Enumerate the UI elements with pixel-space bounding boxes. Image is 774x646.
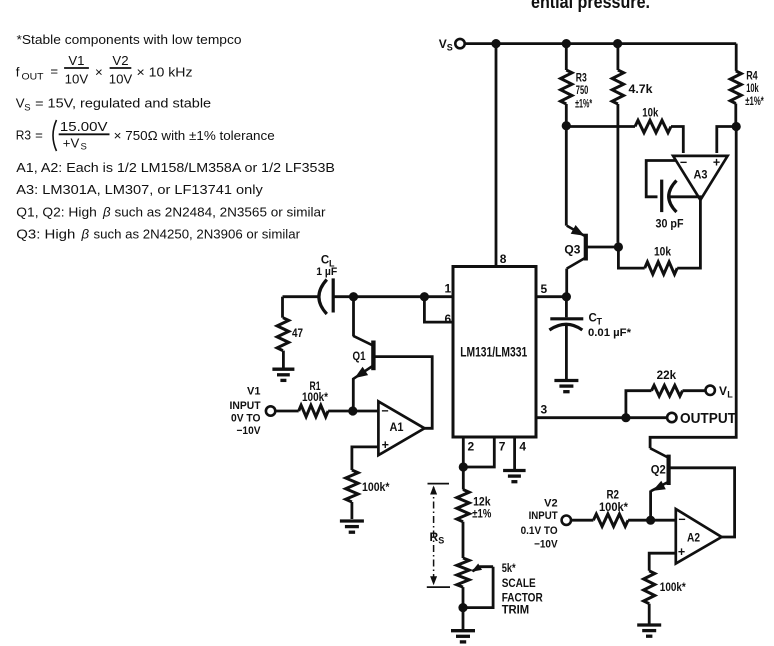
node pin5-CT-Q3 junction [562,292,571,301]
svg-text:1: 1 [445,282,452,296]
note: fOUT formula [16,53,193,87]
node R3 bottom junction [562,121,571,130]
svg-text:*Stable components with low te: *Stable components with low tempco [17,32,242,47]
svg-text:=: = [50,64,58,79]
svg-text:× 10 kHz: × 10 kHz [137,65,193,80]
node rail-R3 junction [562,39,571,48]
wire Q1 base to A1 output [373,357,432,429]
svg-text:±1%: ±1% [472,509,491,521]
svg-text:12k: 12k [473,496,491,508]
svg-text:R4: R4 [746,70,758,82]
svg-text:S: S [81,142,87,153]
svg-text:SCALE: SCALE [502,578,536,590]
wire 5k to ground [462,608,465,630]
svg-text:5k*: 5k* [502,563,516,575]
svg-text:0.01 µF*: 0.01 µF* [588,327,632,339]
label 47 [292,328,303,340]
terminal VL [706,384,734,400]
label V2 input [521,498,559,551]
label 4.7k value [629,84,654,96]
node rail-pin8 junction [491,39,500,48]
svg-text:OUT: OUT [22,72,44,83]
capacitor 30 pF [646,161,701,213]
svg-text:10V: 10V [65,72,89,87]
wire pin 5 [536,295,566,298]
note: A1 A2 [16,160,335,175]
svg-text:C: C [321,255,329,267]
pin 1 label [445,282,452,296]
label 10k A3 input [642,105,658,119]
transistor Q1 [353,297,374,411]
svg-text:100k*: 100k* [362,482,390,494]
wire pin 3 to OUTPUT [536,416,667,419]
resistor R3 [561,44,572,126]
resistor 100k A1 [346,470,358,519]
resistor 12k [457,467,469,558]
svg-text:V: V [719,384,727,398]
wire A1 noninverting input [352,447,379,470]
svg-text:10k: 10k [642,105,658,119]
ground below 5k [451,631,475,642]
label R1 value [302,381,328,404]
svg-text:+: + [678,545,685,559]
terminal OUTPUT [667,410,736,427]
label CT value [588,313,632,340]
transistor Q2 [650,448,735,537]
svg-text:× 750Ω with ±1% tolerance: × 750Ω with ±1% tolerance [114,128,275,143]
svg-text:47: 47 [292,328,303,340]
note: Q1 Q2 [16,205,326,220]
pin 5 label [541,282,548,296]
svg-text:A3: LM301A, LM307, or LF13741: A3: LM301A, LM307, or LF13741 only [16,182,263,197]
svg-text:FACTOR: FACTOR [502,592,544,604]
pin 6 label [445,312,452,326]
label CL value [316,255,337,279]
svg-text:ential pressure.: ential pressure. [531,0,650,12]
ground below 47 [272,369,294,380]
figure caption (cropped) [531,0,650,12]
measurement bracket RS [427,484,450,587]
svg-text:0.1V TO: 0.1V TO [521,525,558,537]
svg-text:100k*: 100k* [660,582,686,594]
note: R3 formula [16,119,275,153]
svg-text:Q3: Q3 [564,245,580,257]
svg-text:5: 5 [541,282,548,296]
svg-text:Q2: Q2 [651,465,666,477]
svg-text:R3: R3 [576,73,587,85]
pin 8 label [500,252,507,266]
wire junction to A1 inverting input [353,410,379,413]
svg-text:10k: 10k [746,83,759,95]
svg-text:8: 8 [500,252,507,266]
wire pin 1 [424,295,453,298]
label 100k A1 [362,482,390,494]
label 5k trim [502,563,544,616]
svg-text:2: 2 [468,439,475,453]
svg-text:TRIM: TRIM [502,604,530,616]
node 5k bottom junction [458,603,467,612]
svg-text:INPUT: INPUT [230,400,261,412]
svg-text:−: − [381,404,388,418]
label 22k [657,370,677,382]
wire VS supply rail [465,42,737,45]
node R1-Q1-A1 junction [348,406,357,415]
svg-text:3: 3 [541,402,548,416]
svg-text:OUTPUT: OUTPUT [680,410,736,427]
svg-text:100k*: 100k* [302,392,328,404]
potentiometer 5k scale factor trim [457,558,493,608]
svg-text:V1: V1 [247,385,260,397]
svg-text:S: S [438,536,444,546]
label R2 value [599,490,629,514]
svg-text:22k: 22k [657,370,677,382]
svg-text:Q3: High: Q3: High [16,227,75,242]
node Q3 base junction [614,242,623,251]
capacitor CT [549,297,583,380]
pin 7 label [499,439,506,453]
svg-text:1 µF: 1 µF [316,266,337,278]
svg-text:4.7k: 4.7k [629,84,654,96]
pin 4 label [519,439,526,453]
node output junction [621,413,630,422]
wire pin 4 [513,437,516,470]
label R3 value [575,73,592,111]
svg-text:7: 7 [499,439,506,453]
svg-text:×: × [95,65,103,80]
svg-text:V: V [439,37,447,51]
pin 2 label [468,439,475,453]
wire A2 noninverting input [649,553,676,571]
op-amp A1 [378,401,424,455]
svg-text:A1: A1 [390,422,405,434]
node R2-Q2-A2 junction [646,516,655,525]
resistor 47 [277,297,289,369]
svg-text:100k*: 100k* [599,502,629,514]
svg-text:6: 6 [445,312,452,326]
capacitor CL [283,278,354,314]
svg-text:10V: 10V [109,72,133,87]
svg-text:−: − [678,512,685,526]
label R4 value [745,70,764,108]
resistor 4.7k [612,44,623,243]
svg-text:−10V: −10V [237,425,262,437]
IC U1 LM131/LM331 [453,267,536,438]
svg-text:10k: 10k [654,245,671,259]
svg-text:f: f [16,65,20,80]
terminal V2 input [562,516,571,525]
svg-text:β: β [81,227,90,242]
resistor 22k [626,385,706,417]
resistor 10k A3 feedback [618,200,700,274]
resistor 10k A3 input [566,120,683,153]
svg-text:= 15V, regulated and stable: = 15V, regulated and stable [35,96,211,111]
terminal VS [439,37,465,53]
svg-text:such as 2N2484, 2N3565 or simi: such as 2N2484, 2N3565 or similar [115,205,327,220]
svg-text:A2: A2 [687,532,700,544]
transistor Q3 [564,126,618,297]
svg-text:T: T [597,317,603,327]
svg-text:such as 2N4250, 2N3906 or simi: such as 2N4250, 2N3906 or similar [94,227,301,242]
svg-text:±1%*: ±1%* [575,99,592,111]
svg-text:LM131/LM331: LM131/LM331 [460,344,527,359]
note: stable components [17,32,242,47]
node rail-4.7k junction [613,39,622,48]
note: VS [16,96,211,114]
svg-text:−10V: −10V [534,539,558,551]
wire A3 noninverting input to R4 node [717,127,736,154]
node CL junction [349,292,358,301]
svg-text:R: R [430,530,439,544]
svg-text:R2: R2 [607,490,620,502]
ground below pin 4 [503,471,525,482]
note: Q3 note [16,227,300,242]
wire pin 8 to rail [495,44,498,267]
svg-text:L: L [727,390,733,400]
wire pin1 node to CL [354,295,425,298]
wire pin 6 [424,297,453,322]
wire pin 7 [463,437,494,467]
svg-text:β: β [102,205,111,220]
label 100k A2 [660,582,686,594]
note: A3 [16,182,263,197]
ground below CT [554,381,578,392]
terminal V1 input [266,406,275,415]
svg-text:0V TO: 0V TO [231,412,261,424]
wire junction to A2 inverting input [651,519,676,522]
resistor 100k A2 [644,571,655,624]
op-amp A2 [676,509,722,564]
svg-text:750: 750 [576,85,589,97]
svg-text:V1: V1 [68,53,84,68]
svg-text:R3: R3 [16,128,31,143]
resistor R2 [571,514,651,526]
op-amp A3 [673,156,728,200]
label 10k A3 feedback [654,245,671,259]
svg-text:±1%*: ±1%* [745,96,764,108]
svg-text:V2: V2 [112,53,128,68]
ground below 100k A2 [637,625,661,636]
wire pin 2 [462,437,465,467]
label V1 input [230,385,262,437]
svg-text:INPUT: INPUT [529,510,558,522]
svg-text:A1, A2: Each is 1/2 LM158/LM35: A1, A2: Each is 1/2 LM158/LM358A or 1/2 … [16,160,335,175]
svg-text:S: S [447,43,453,53]
label 12k value [472,496,491,520]
node R4 bottom junction [732,122,741,131]
svg-text:−: − [680,156,687,170]
svg-text:S: S [24,103,30,114]
resistor R1 [275,405,353,417]
svg-text:A3: A3 [694,170,708,182]
resistor R4 [730,44,741,127]
ground below 100k A1 [340,521,364,532]
svg-text:+V: +V [63,136,80,151]
node pin2-pin7 junction [459,462,468,471]
svg-text:4: 4 [519,439,526,453]
svg-text:Q1, Q2: High: Q1, Q2: High [16,205,97,220]
svg-text:V2: V2 [544,498,557,510]
svg-text:15.00V: 15.00V [60,119,108,134]
svg-text:Q1: Q1 [353,351,367,363]
node pin1-pin6 junction [420,292,429,301]
svg-text:+: + [713,156,720,170]
svg-text:30 pF: 30 pF [656,219,684,231]
pin 3 label [541,402,548,416]
svg-text:R1: R1 [310,381,321,393]
label 30 pF [656,219,684,231]
svg-text:=: = [35,128,43,143]
wire R4 node down to Q2 collector [650,127,736,449]
svg-text:+: + [382,438,389,452]
